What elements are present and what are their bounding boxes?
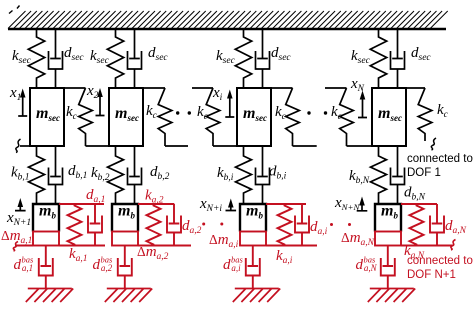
added mass dm_a,1 red part of box [33, 232, 59, 246]
added mass dm_a,i red part of box [240, 232, 266, 246]
svg-text:xN: xN [350, 76, 365, 94]
damper d_a,1 red [88, 204, 102, 246]
svg-text:dbasa,i: dbasa,i [223, 255, 244, 274]
mass m_sec column N [372, 88, 406, 146]
svg-text:da,1: da,1 [86, 187, 105, 205]
ceiling fixed support with hatching [8, 11, 448, 29]
wire red stub wrap-around at column 1 [15, 245, 33, 247]
coupling spring k_c left of column N [340, 88, 354, 146]
wire red absorber top link column 1 [59, 203, 104, 205]
svg-text:da,2: da,2 [182, 218, 202, 236]
svg-text:Δma,1: Δma,1 [1, 228, 32, 246]
mass m_b column 1 (black part) [33, 204, 59, 232]
dots between columns 2 and i (2) [188, 111, 191, 114]
arrow x_2 [96, 95, 105, 116]
mass m_b column N (black part) [375, 204, 401, 232]
svg-text:DOF N+1: DOF N+1 [407, 269, 456, 281]
coupling spring k_c right of column 2 [158, 88, 172, 146]
arrow x_N+i [226, 206, 237, 211]
coupling spring k_c between 1 and 2 [79, 88, 93, 146]
damper d_b,2 [128, 146, 142, 204]
svg-text:kc: kc [146, 103, 158, 121]
svg-text:connected to: connected to [407, 255, 473, 267]
spring k_b,1 [29, 146, 45, 204]
svg-text:ksec: ksec [351, 48, 371, 66]
dots between columns i and N (2) [324, 111, 327, 114]
svg-text:xN+1: xN+1 [6, 210, 31, 228]
arrow x_N+1 [15, 205, 26, 211]
svg-text:dsec: dsec [411, 45, 431, 63]
svg-text:ksec: ksec [216, 48, 236, 66]
coupling spring k_c left of column i top wire [192, 87, 213, 89]
added mass dm_a,N red part of box [375, 232, 401, 246]
svg-text:ksec: ksec [12, 48, 32, 66]
damper d_b,1 [49, 146, 63, 204]
wire red absorber top link column 2 [138, 203, 174, 205]
svg-text:kb,N: kb,N [349, 168, 370, 186]
wire red absorber bottom link column i [266, 245, 317, 247]
break squiggle at column 1 left [16, 139, 21, 153]
spring k_sec column N [370, 29, 386, 88]
coupling spring k_c left of column N bottom wire [347, 145, 376, 147]
svg-text:kc: kc [437, 102, 449, 120]
red dots between columns i and N (2) [348, 223, 351, 226]
coupling spring k_c right of column i bottom wire [293, 145, 317, 147]
red dots between columns 2 and i (1) [202, 223, 205, 226]
wire red absorber bottom link column N [401, 245, 453, 247]
svg-text:Δma,N: Δma,N [341, 230, 375, 248]
svg-text:kc: kc [197, 104, 209, 122]
spring k_sec column 2 [107, 29, 123, 88]
svg-text:msec: msec [36, 105, 60, 123]
damper d_a,2^bas red to ground [118, 246, 132, 289]
mass m_sec column i [237, 88, 271, 146]
damper d_a,1^bas red to ground [39, 246, 53, 289]
wire red absorber top link column i [266, 203, 306, 205]
svg-text:db,i: db,i [269, 164, 287, 182]
svg-text:db,2: db,2 [150, 164, 170, 182]
ground under column N [368, 289, 415, 303]
added mass dm_a,2 red part of box [112, 232, 138, 246]
ground under column 2 [105, 289, 152, 303]
damper d_sec column 1 [49, 29, 63, 88]
damper d_a,i^bas red to ground [246, 246, 260, 289]
red break squiggle to DOF N+1 right of column N [451, 240, 456, 251]
arrow x_i [225, 97, 234, 118]
damper d_a,i red [295, 204, 309, 246]
svg-text:dbasa,N: dbasa,N [356, 255, 378, 274]
svg-text:DOF 1: DOF 1 [407, 167, 441, 179]
arrow x_1 [18, 96, 27, 117]
red dots between columns 2 and i (2) [220, 223, 223, 226]
spring k_b,N [371, 146, 387, 204]
ground under column 1 [26, 289, 73, 303]
damper d_b,i [256, 146, 270, 204]
coupling spring k_c left of column i bottom wire [213, 145, 240, 147]
svg-text:da,i: da,i [310, 219, 328, 237]
svg-text:Δma,i: Δma,i [209, 232, 239, 250]
svg-text:xN+N: xN+N [334, 195, 360, 212]
coupling spring k_c right of column N [418, 88, 432, 141]
svg-text:xN+i: xN+i [199, 196, 222, 214]
svg-text:ka,i: ka,i [276, 248, 293, 266]
svg-text:da,N: da,N [445, 218, 467, 236]
svg-text:msec: msec [378, 105, 402, 123]
coupling spring k_c right of column i [286, 88, 300, 146]
svg-text:db,N: db,N [404, 185, 426, 203]
svg-text:ka,2: ka,2 [145, 188, 164, 206]
spring k_a,N red [410, 204, 424, 246]
red break squiggle at column 1 left [13, 242, 18, 252]
svg-text:dsec: dsec [271, 45, 291, 63]
spring k_sec column 1 [28, 29, 44, 88]
svg-text:connected to: connected to [407, 153, 473, 165]
svg-text:dsec: dsec [64, 45, 84, 63]
mass m_b column i (black part) [240, 204, 266, 232]
spring k_a,2 red [147, 204, 161, 246]
svg-text:ksec: ksec [90, 48, 110, 66]
svg-text:x1: x1 [9, 85, 21, 103]
svg-text:dbasa,1: dbasa,1 [14, 255, 35, 274]
svg-text:kb,i: kb,i [217, 165, 234, 183]
coupling spring k_c right of column 2 bottom wire [165, 145, 188, 147]
svg-text:db,1: db,1 [68, 163, 87, 181]
coupling spring k_c left of column N top wire [325, 87, 347, 89]
svg-text:ka,1: ka,1 [69, 246, 88, 264]
arrow x_N [358, 98, 367, 118]
damper d_sec column N [391, 29, 405, 88]
wire red absorber bottom link column 1 [59, 245, 105, 247]
arrow x_N+N [357, 204, 368, 211]
red dots between columns i and N (1) [330, 223, 333, 226]
coupling spring k_c between 1 and 2 bottom wire [86, 145, 110, 147]
svg-text:msec: msec [243, 105, 267, 123]
damper d_a,N red [430, 204, 444, 246]
svg-text:kc: kc [275, 104, 287, 122]
damper d_a,N^bas red to ground [381, 246, 395, 289]
wire red absorber top link column N [401, 203, 437, 205]
svg-text:x2: x2 [86, 83, 99, 101]
svg-text:msec: msec [115, 105, 139, 123]
damper d_sec column i [256, 29, 270, 88]
mass m_sec column 1 [30, 88, 64, 146]
mass m_sec column 2 [109, 88, 143, 146]
dots between columns i and N (1) [307, 111, 310, 114]
damper d_b,N [391, 146, 405, 204]
damper d_sec column 2 [128, 29, 142, 88]
svg-text:dbasa,2: dbasa,2 [93, 255, 114, 274]
spring k_b,2 [108, 146, 124, 204]
coupling spring k_c right of column 2 top wire [143, 87, 165, 89]
spring k_a,i red [278, 204, 292, 246]
dots between columns 2 and i (1) [176, 111, 179, 114]
ground under column i [233, 289, 280, 303]
coupling spring k_c right of column i top wire [271, 87, 293, 89]
damper d_a,2 red [167, 204, 181, 246]
coupling spring k_c left of column i [206, 88, 220, 146]
coupling spring k_c right of column N top wire [406, 87, 425, 89]
svg-text:xi: xi [212, 85, 223, 103]
svg-text:Δma,2: Δma,2 [137, 244, 169, 262]
mass m_b column 2 (black part) [112, 204, 138, 232]
coupling spring k_c between 1 and 2 top wire [64, 87, 86, 89]
break squiggle to DOF 1 [431, 138, 436, 150]
spring k_b,i [236, 146, 252, 204]
svg-text:dsec: dsec [148, 45, 168, 63]
svg-text:kc: kc [66, 104, 78, 122]
wire stub from DOF 1 wrap-around [20, 145, 30, 147]
spring k_a,1 red [68, 204, 82, 246]
spring k_sec column i [235, 29, 251, 88]
wire red absorber bottom link column 2 [138, 245, 191, 247]
svg-text:kc: kc [331, 104, 343, 122]
